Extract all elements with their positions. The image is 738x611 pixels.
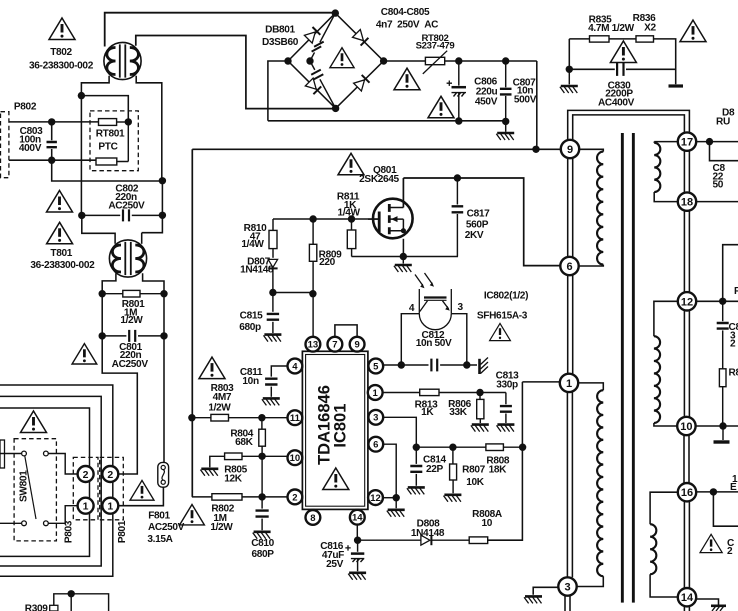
capacitor C811 10n — [265, 379, 277, 385]
wire R309 loop — [54, 594, 109, 611]
resistor R810 47 — [272, 219, 274, 230]
svg-text:P801: P801 — [117, 520, 128, 543]
pin 5 IC801 — [368, 359, 383, 374]
wire IC802 pin3 down — [451, 314, 467, 365]
diode DB801 bottom-left — [305, 78, 321, 94]
ground — [497, 425, 515, 432]
fuse F801 — [158, 462, 169, 487]
capacitor C810 680P — [261, 497, 263, 509]
pin 3 IC801 — [368, 410, 383, 425]
svg-text:2: 2 — [727, 546, 733, 557]
junction R811 top / gate — [348, 215, 355, 222]
junction C806 top — [455, 57, 462, 64]
junction T802 bottom-left node — [78, 92, 85, 99]
svg-text:1K: 1K — [421, 407, 434, 418]
wire C802 bottom to T801 top-left — [82, 215, 115, 243]
warning symbol near C806 — [428, 96, 454, 118]
pin 12 IC801 — [368, 490, 383, 505]
connector P802 — [1, 112, 9, 178]
svg-text:2SK2645: 2SK2645 — [359, 174, 399, 185]
node 3 transformer pin — [558, 577, 576, 595]
warning symbol right edge — [700, 534, 722, 552]
wire B+ rail to circle 9 column — [445, 61, 537, 149]
svg-text:C817: C817 — [467, 209, 490, 220]
wire R805 to ground — [210, 456, 225, 467]
diode D808 1N4148 — [421, 535, 432, 545]
warning symbol above SW801 — [21, 411, 47, 433]
svg-text:F801: F801 — [148, 511, 170, 522]
primary bus node 9 to 6 (double line) — [568, 158, 573, 257]
wire switch pole 2 to P803 — [48, 506, 77, 524]
wire R309 center — [70, 594, 72, 611]
capacitor C812 10n 50V — [431, 359, 437, 372]
svg-text:10K: 10K — [466, 477, 485, 488]
wire T801 bottom-right down — [143, 273, 164, 294]
junction R804 top — [258, 414, 265, 421]
svg-text:IC801: IC801 — [332, 404, 350, 448]
wire to ground — [505, 121, 507, 131]
junction C815 top — [269, 289, 276, 296]
transformer T801 (line filter choke) — [109, 240, 146, 277]
wire source stub — [402, 239, 404, 257]
ground — [264, 335, 282, 342]
diode DB801 top-right — [353, 30, 369, 46]
junction bridge right node — [380, 57, 387, 64]
node 18 transformer pin — [678, 192, 696, 210]
wire startup supply vertical — [191, 149, 193, 497]
svg-text:5: 5 — [373, 361, 379, 372]
svg-text:330p: 330p — [496, 380, 518, 391]
capacitor C813 330p — [505, 393, 507, 405]
junction node 16 branch — [710, 488, 717, 495]
svg-text:13: 13 — [308, 340, 319, 351]
wire fuse to P801 pin 1 — [118, 487, 163, 506]
wire R801 row — [102, 293, 164, 295]
junction B+ at node 9 column — [532, 146, 539, 153]
resistor R836 — [636, 36, 654, 42]
junction C817 top — [454, 174, 461, 181]
wire switch pole 1 to P803 — [48, 454, 77, 475]
wire to RT801 right side — [81, 96, 128, 122]
resistor RT801 lower element — [96, 158, 117, 165]
junction feedback rail — [519, 444, 526, 451]
wire bracket pins 7-9 — [335, 325, 357, 337]
svg-text:50: 50 — [713, 180, 724, 191]
wire T802 top-left to bridge top node — [105, 13, 336, 47]
svg-text:1: 1 — [83, 500, 89, 512]
node 9 transformer pin — [561, 140, 579, 158]
capacitor C801 220n AC250V — [129, 330, 135, 342]
svg-text:RU: RU — [716, 117, 730, 128]
secondary bus (double line) — [684, 151, 689, 193]
wire C803 leads — [51, 122, 53, 160]
svg-text:10: 10 — [680, 421, 692, 433]
node 14 transformer pin — [678, 588, 696, 606]
resistor R805 12K — [225, 453, 242, 460]
junction C816 top — [354, 537, 361, 544]
svg-text:14: 14 — [352, 513, 363, 524]
svg-text:DB801: DB801 — [265, 24, 295, 35]
capacitor C806 220u 450V electrolytic — [458, 61, 460, 86]
wire to ground — [568, 69, 570, 84]
svg-text:400V: 400V — [19, 143, 42, 154]
wire B+ line to node 9 — [192, 148, 561, 150]
node 6 transformer pin — [560, 257, 578, 275]
wire pin 5 rail — [383, 364, 477, 366]
capacitor C8xx right edge — [722, 301, 724, 321]
svg-text:C815: C815 — [240, 310, 263, 321]
wire regulation rail — [416, 446, 522, 448]
wire mains to switch pole 2 — [0, 522, 22, 524]
warning symbol right of R836 — [680, 20, 706, 41]
winding primary 9-6 — [579, 149, 603, 151]
ground — [496, 133, 514, 140]
svg-text:450V: 450V — [475, 96, 498, 107]
junction pin13 net — [309, 290, 316, 297]
wire between R835 R836 — [609, 38, 636, 40]
connector P803 (dashed box) — [73, 457, 98, 519]
pin 8 IC801 — [306, 510, 321, 525]
pin 4 IC801 — [288, 359, 303, 374]
svg-text:1/2W: 1/2W — [210, 522, 233, 533]
resistor R8xx right edge — [719, 369, 726, 387]
connector pin 1 P801 — [102, 498, 118, 514]
junction C801 left — [99, 332, 106, 339]
transformer T802 (line filter choke) — [104, 42, 141, 79]
wire R809 to pin 13 — [312, 261, 314, 344]
svg-text:10: 10 — [482, 518, 493, 529]
wire mains to switch pole 1 — [0, 453, 22, 455]
wire node 16 lower branch — [713, 492, 738, 526]
ground — [253, 532, 271, 539]
wire node 1 to feedback column — [522, 381, 559, 383]
winding secondary 12-10 — [654, 301, 678, 336]
pin 14 IC801 — [350, 510, 365, 525]
wire bridge plus to RT802 — [384, 60, 426, 62]
svg-text:4: 4 — [292, 361, 298, 372]
wire pin 6 down — [383, 444, 396, 498]
wire T801 bottom-left down — [102, 273, 116, 294]
svg-text:T801: T801 — [50, 248, 72, 259]
wire C802 right to T801 top-right — [142, 181, 163, 233]
degaussing coil loop inner — [0, 408, 90, 556]
svg-text:RT801: RT801 — [96, 129, 125, 140]
svg-text:12: 12 — [370, 493, 381, 504]
junction C803 bottom — [48, 157, 55, 164]
pin 13 IC801 — [306, 337, 321, 352]
wire RT801 lower to right — [117, 122, 129, 162]
junction R807 top — [449, 444, 456, 451]
warning symbol near T802 — [49, 18, 75, 40]
wire node 3 to ground — [533, 587, 558, 595]
warning symbol at IC802 — [490, 323, 511, 340]
junction C806 bottom — [455, 117, 462, 124]
wire feedback vertical — [488, 382, 523, 540]
primary bus node 1 to 3 (double line) — [567, 392, 572, 577]
resistor R811 1K — [351, 219, 353, 230]
node 1 transformer pin — [560, 374, 578, 392]
svg-text:1: 1 — [107, 500, 113, 512]
ground below node 14 (partial) — [711, 604, 726, 607]
svg-text:P803: P803 — [63, 520, 74, 543]
svg-text:C804-C805: C804-C805 — [381, 7, 430, 18]
svg-text:AC250V: AC250V — [112, 359, 149, 370]
resistor R806 33K — [477, 399, 484, 418]
resistor R802 1M — [212, 494, 242, 500]
resistor R813 1K — [420, 389, 439, 395]
pin 10 IC801 — [288, 450, 303, 465]
svg-text:10: 10 — [290, 453, 301, 464]
ground — [444, 495, 462, 502]
wire C805 branch lower — [310, 61, 336, 108]
svg-text:36-238300-002: 36-238300-002 — [29, 61, 94, 72]
wire down to C801 row — [102, 294, 164, 336]
node 10 transformer pin — [677, 417, 695, 435]
capacitor C807 10n 500V — [505, 61, 507, 87]
svg-text:220: 220 — [319, 257, 336, 268]
junction C807 top — [502, 57, 509, 64]
connector pin 1 P803 — [78, 498, 94, 514]
wire node 12 upper branch — [723, 245, 738, 302]
svg-text:2: 2 — [83, 469, 89, 481]
wire C815 to pin13 column — [273, 292, 313, 294]
junction R803 left — [188, 414, 195, 421]
winding secondary 17-18 — [654, 142, 678, 143]
ground — [524, 596, 542, 603]
svg-text:22P: 22P — [426, 464, 444, 475]
svg-text:3: 3 — [457, 302, 463, 313]
wire pin 1 to R813 — [383, 392, 420, 394]
svg-text:4n7 250V AC: 4n7 250V AC — [376, 20, 439, 31]
junction negative rail / ground — [502, 118, 509, 125]
optocoupler IC802 phototransistor — [415, 273, 451, 330]
bridge DB801 diamond — [288, 13, 384, 108]
wire source to ground — [402, 257, 404, 264]
svg-text:4M7: 4M7 — [213, 392, 232, 403]
wire T801 top-right stub — [141, 233, 143, 244]
svg-text:1/4W: 1/4W — [241, 239, 264, 250]
wire C801 left to P801 pin 2 — [102, 336, 137, 474]
wire node 14 output — [696, 599, 718, 605]
wire pin 14 down — [356, 525, 358, 541]
wire T802 top-right to bridge bottom node — [136, 36, 336, 109]
RT801 PTC (dashed box) — [90, 111, 138, 171]
wire R803 to pin 11 — [229, 417, 288, 419]
node 17 transformer pin — [678, 132, 696, 150]
ground — [200, 469, 218, 476]
wire R802 left — [192, 496, 212, 498]
junction node 17 branch — [706, 138, 713, 145]
capacitor C814 22P — [415, 447, 417, 464]
warning symbol above T801 — [47, 191, 73, 213]
svg-text:6: 6 — [566, 261, 572, 273]
capacitor C803 100n 400V — [47, 142, 57, 147]
ground — [387, 510, 405, 517]
resistor R807 10K — [452, 447, 454, 464]
wire node 18 output — [696, 201, 738, 203]
svg-text:10n 50V: 10n 50V — [416, 338, 452, 349]
svg-text:36-238300-002: 36-238300-002 — [30, 260, 95, 271]
svg-text:2: 2 — [730, 339, 736, 350]
wire C804 branch upper — [310, 13, 335, 61]
junction node 10 branch — [719, 422, 726, 429]
switch contacts — [22, 451, 49, 526]
diode DB801 top-left — [304, 27, 320, 43]
wire T802 bottom-right down to C802 top rail — [136, 76, 162, 181]
svg-text:16: 16 — [681, 487, 693, 499]
svg-text:2: 2 — [107, 469, 113, 481]
wire T802 bottom-left down — [81, 76, 109, 96]
resistor R808 18K — [486, 444, 504, 451]
ground — [394, 265, 412, 272]
wire node 16 output — [696, 491, 738, 493]
junction pin10 net — [258, 453, 265, 460]
svg-text:4: 4 — [409, 303, 415, 314]
ground — [348, 573, 366, 580]
warning symbol left of F801 — [130, 480, 154, 500]
capacitor C815 680p — [272, 293, 274, 312]
switch blade — [25, 456, 36, 519]
svg-text:1N4148: 1N4148 — [240, 264, 274, 275]
wire R805 right — [242, 455, 262, 457]
svg-text:10n: 10n — [242, 376, 259, 387]
warning symbol left of C801 — [72, 344, 97, 364]
degaussing coil loop outer — [0, 385, 113, 576]
svg-text:12: 12 — [681, 296, 693, 308]
connector pin 2 P803 — [78, 466, 94, 482]
svg-text:PTC: PTC — [98, 142, 118, 153]
wire pin10 to pin2 net — [261, 456, 263, 497]
junction C812 left — [398, 361, 405, 368]
resistor R809 220 — [312, 219, 314, 244]
svg-text:68K: 68K — [235, 437, 254, 448]
wire C803 bottom to C802 top rail — [52, 160, 163, 181]
connector P801 (dashed box) — [100, 457, 124, 519]
svg-text:S237-479: S237-479 — [416, 40, 455, 51]
wire R803 left — [192, 417, 211, 419]
svg-text:11: 11 — [290, 413, 301, 424]
winding secondary 16-14 — [650, 492, 678, 524]
ground — [471, 425, 489, 432]
capacitor C802 220n AC250V — [123, 209, 129, 221]
node 12 transformer pin — [678, 292, 696, 310]
wire R836 right down — [654, 39, 676, 84]
wire C801 right to fuse F801 — [163, 336, 165, 463]
wire source rail — [352, 256, 459, 258]
svg-text:1N4148: 1N4148 — [411, 528, 445, 539]
wire R802 to pin 2 — [242, 496, 288, 498]
svg-text:AC400V: AC400V — [598, 97, 635, 108]
svg-text:AC250V: AC250V — [108, 200, 145, 211]
connector pin 2 P801 — [102, 466, 118, 482]
svg-text:25V: 25V — [326, 559, 344, 570]
junction bridge top node — [332, 9, 339, 16]
wire R813 to C813 — [439, 392, 506, 394]
wire down to C802 bottom rail — [80, 96, 82, 216]
svg-text:P802: P802 — [14, 102, 37, 113]
capacitor C804 — [312, 42, 324, 52]
svg-text:2KV: 2KV — [465, 230, 484, 241]
junction RT801 right — [125, 118, 132, 125]
wire to pin 10 — [262, 455, 287, 457]
wire R835 left — [569, 38, 589, 40]
svg-text:AC250V: AC250V — [148, 522, 185, 533]
svg-text:C810: C810 — [251, 538, 274, 549]
svg-text:18: 18 — [681, 197, 693, 209]
warning symbol below RT802 — [394, 68, 420, 90]
junction R806 top — [476, 389, 483, 396]
svg-text:D3SB60: D3SB60 — [262, 37, 299, 48]
junction bridge left node — [284, 57, 291, 64]
junction bridge bottom node — [332, 105, 339, 112]
wire node 10 output — [696, 425, 738, 427]
junction C810 top — [258, 493, 265, 500]
wire RT801 upper to right — [117, 121, 129, 123]
svg-text:8: 8 — [310, 513, 315, 524]
svg-text:17: 17 — [681, 137, 693, 149]
pin 6 IC801 — [368, 437, 383, 452]
transistor Q801 2SK2645 MOSFET — [368, 199, 413, 239]
svg-text:T802: T802 — [50, 47, 72, 58]
wire D808 to R808A — [431, 539, 469, 541]
wire node 12 output — [696, 300, 738, 302]
svg-text:560P: 560P — [466, 220, 489, 231]
wire R835 to C830 node — [568, 39, 570, 69]
warning symbol between R835 R836 — [610, 41, 636, 63]
svg-text:7: 7 — [332, 340, 337, 351]
winding primary 1-3 — [578, 383, 603, 390]
wire IC802 pin4 down — [401, 314, 419, 365]
svg-text:1/2W: 1/2W — [120, 315, 143, 326]
wire node 17 output — [696, 141, 738, 143]
junction C801 right — [160, 332, 167, 339]
pin 7 IC801 — [328, 337, 343, 352]
wire to D808 — [358, 539, 421, 541]
ground — [262, 398, 280, 405]
degaussing coil loop middle — [0, 396, 101, 566]
junction C802 bottom rail right — [159, 212, 166, 219]
svg-text:2: 2 — [292, 492, 297, 503]
wire C830 row — [569, 68, 675, 70]
junction R309 — [68, 590, 75, 597]
wire C801 row — [102, 335, 164, 337]
chassis bar below node 10 — [714, 440, 730, 443]
svg-text:SFH615A-3: SFH615A-3 — [477, 310, 528, 321]
junction C830 left — [566, 66, 573, 73]
hatch symbol at C812 rail end — [478, 359, 481, 374]
transformer core lines — [621, 133, 624, 603]
junction R809 top — [309, 215, 316, 222]
junction R801 left — [99, 290, 106, 297]
op-amp U1 : controller IC801 TDA16846 body — [302, 351, 368, 509]
ground — [560, 86, 578, 93]
warning symbol inside bridge — [330, 48, 354, 68]
switch SW801 (dashed box) — [14, 439, 56, 541]
svg-text:E: E — [730, 482, 737, 493]
svg-text:680p: 680p — [239, 322, 261, 333]
diode DB801 bottom-right — [354, 75, 370, 91]
junction C812 right — [463, 361, 470, 368]
svg-text:R807: R807 — [462, 464, 485, 475]
chassis bar right of C830 — [669, 84, 684, 87]
resistor R803 4M7 — [211, 414, 229, 421]
wire C802 bottom rail — [82, 214, 163, 216]
svg-text:R8: R8 — [729, 368, 738, 379]
svg-text:X2: X2 — [644, 23, 656, 34]
node 16 transformer pin — [678, 483, 696, 501]
wire P802 bottom line — [9, 159, 96, 161]
junction C802 top rail right — [159, 177, 166, 184]
